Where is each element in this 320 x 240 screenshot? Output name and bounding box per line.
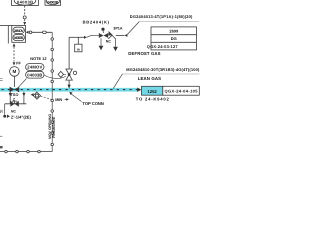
svg-text:NC: NC — [11, 109, 17, 113]
svg-text:04003B: 04003B — [47, 1, 58, 5]
svg-text:DG: DG — [171, 36, 177, 41]
svg-text:MG2404810-30T(3R1B3)-4G(4T)(10: MG2404810-30T(3R1B3)-4G(4T)(100) — [126, 67, 200, 72]
svg-text:04003B: 04003B — [27, 72, 42, 77]
svg-text:M: M — [12, 69, 16, 74]
svg-text:TO 24-K9402: TO 24-K9402 — [136, 96, 170, 101]
svg-text:DEFROST GAS: DEFROST GAS — [128, 51, 160, 56]
svg-text:m: m — [77, 48, 80, 52]
svg-text:24MOV: 24MOV — [27, 65, 42, 70]
svg-text:PERMISSIVE: PERMISSIVE — [52, 116, 56, 138]
svg-text:3P1A: 3P1A — [113, 26, 123, 30]
svg-text:Z’-1/4”(2E): Z’-1/4”(2E) — [11, 115, 32, 120]
svg-text:TOP CONN: TOP CONN — [82, 101, 104, 106]
svg-text:TSO: TSO — [11, 93, 19, 97]
svg-text:DG2404013-4T(1P1A)-1(80)(20): DG2404013-4T(1P1A)-1(80)(20) — [130, 14, 193, 19]
svg-text:FF: FF — [16, 62, 21, 66]
svg-text:NOTE 12: NOTE 12 — [30, 56, 47, 61]
svg-text:QGX-24-03-127: QGX-24-03-127 — [147, 44, 179, 49]
svg-text:2699: 2699 — [169, 29, 179, 34]
svg-text:04003B: 04003B — [14, 36, 24, 40]
svg-text:24MOV: 24MOV — [14, 29, 24, 33]
svg-text:1252: 1252 — [147, 89, 157, 94]
svg-text:MIN: MIN — [55, 98, 62, 102]
svg-text:NC: NC — [106, 39, 112, 43]
svg-text:04003B: 04003B — [17, 0, 33, 5]
svg-text:QGX-24-04-105: QGX-24-04-105 — [165, 89, 199, 94]
svg-text:LEAN GAS: LEAN GAS — [138, 76, 161, 81]
svg-text:BB2404(K): BB2404(K) — [83, 20, 110, 25]
